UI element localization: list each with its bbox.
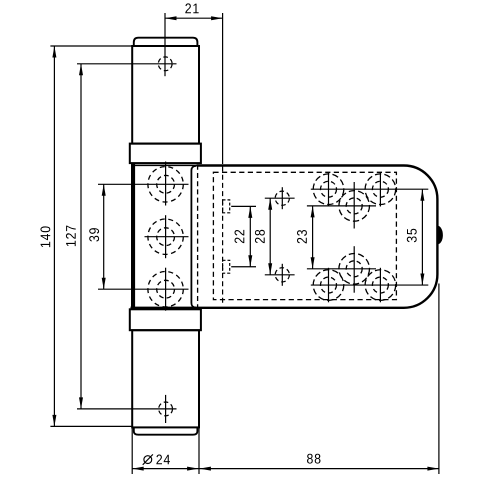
slot lower (dashed) <box>223 260 230 273</box>
big hole top-left <box>313 172 344 207</box>
lower collar <box>130 309 201 330</box>
central knuckle right edge <box>134 165 197 307</box>
dimension 22 <box>248 206 252 266</box>
small plate hole upper <box>265 187 295 209</box>
slot upper connector <box>231 205 256 207</box>
dimension 140 <box>50 46 132 426</box>
hinge barrel bottom cap <box>134 427 198 434</box>
top knuckle hole <box>77 57 177 71</box>
pin bump on right edge <box>438 226 443 245</box>
central hole middle <box>145 215 189 258</box>
central hole top <box>98 162 189 206</box>
big hole bottom-right <box>365 268 396 303</box>
hole row line top (35 extension) <box>311 188 429 190</box>
central knuckle left edge (thick) <box>131 163 135 308</box>
hidden fold line (dashed) <box>197 165 199 308</box>
big hole mid-upper <box>307 182 376 229</box>
hole row line bottom (35 extension) <box>311 284 429 286</box>
slot upper (dashed) <box>223 200 230 213</box>
bottom knuckle <box>132 330 199 427</box>
hinge barrel top cap <box>134 38 198 46</box>
dimension 127 <box>79 64 83 409</box>
dimension Ø24 <box>132 428 199 474</box>
top knuckle <box>132 46 199 144</box>
slot lower connector <box>231 266 256 268</box>
bottom knuckle hole <box>77 395 177 423</box>
hinge plate outline <box>131 166 438 308</box>
dimension 88 <box>199 284 439 475</box>
upper collar <box>130 144 201 164</box>
dimension 21 <box>165 13 223 164</box>
central hole bottom <box>98 268 189 311</box>
big hole mid-lower <box>307 246 376 293</box>
big hole top-right <box>365 172 396 207</box>
slot centerline (dashed) <box>222 167 224 306</box>
small plate hole lower <box>265 264 295 286</box>
dimension 23 <box>311 206 315 269</box>
big hole bottom-left <box>313 268 344 303</box>
dimension 39 <box>102 184 106 289</box>
plate hidden inner contour (dashed rect) <box>213 172 396 299</box>
dimension 35 <box>420 189 424 285</box>
dimension 28 <box>268 198 272 275</box>
